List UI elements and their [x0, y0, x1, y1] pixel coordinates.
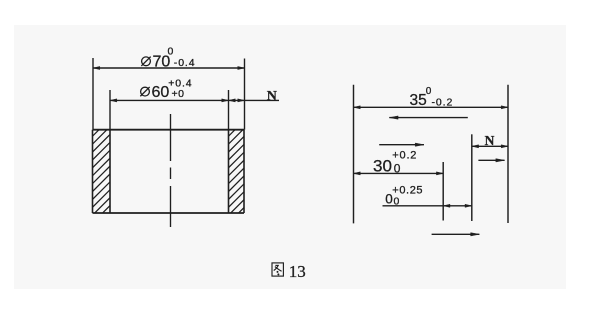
svg-text:0: 0: [168, 46, 174, 58]
svg-text:0: 0: [394, 195, 400, 207]
svg-text:-0.4: -0.4: [174, 57, 196, 69]
svg-text:0: 0: [394, 161, 401, 175]
svg-text:+0.2: +0.2: [392, 149, 417, 161]
svg-text:-0.2: -0.2: [432, 96, 454, 108]
svg-text:30: 30: [373, 156, 392, 175]
svg-text:0: 0: [426, 86, 432, 97]
svg-text:+0: +0: [172, 88, 185, 100]
svg-text:N: N: [485, 133, 495, 148]
svg-text:13: 13: [289, 262, 306, 281]
svg-text:N: N: [267, 89, 277, 104]
svg-text:35: 35: [410, 92, 427, 109]
svg-text:+0.25: +0.25: [392, 184, 423, 196]
svg-text:60: 60: [152, 84, 170, 101]
